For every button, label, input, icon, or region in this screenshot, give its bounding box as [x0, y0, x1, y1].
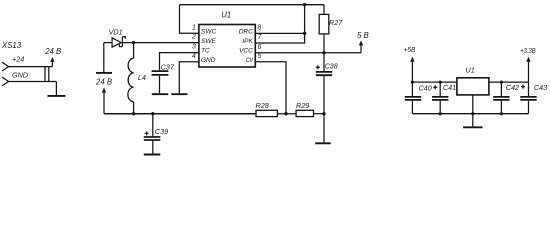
capacitor C39	[144, 137, 161, 140]
label R27	[329, 18, 343, 27]
wire R29 to C38 node	[314, 113, 325, 115]
pin 1 stub and riser	[180, 5, 199, 34]
wire ground drop	[323, 114, 325, 143]
resistor R28	[256, 110, 277, 116]
label U1	[221, 11, 231, 20]
+3.3В arrow	[528, 61, 530, 82]
node C39 tap	[151, 112, 154, 115]
op-amp U1 box	[199, 25, 255, 68]
pin number 4	[192, 53, 196, 60]
pin number 1	[192, 24, 196, 31]
pin 5 stub CII	[255, 62, 286, 114]
svg-text:C41: C41	[443, 83, 456, 92]
resistor R27	[319, 14, 329, 34]
24 V supply arrow (connector)	[51, 61, 53, 67]
capacitor C42 label	[506, 83, 519, 92]
capacitor C43	[520, 97, 536, 100]
ground (C37)	[152, 93, 168, 95]
svg-text:5 В: 5 В	[357, 31, 369, 40]
capacitor C38 label	[325, 61, 338, 70]
capacitor C42	[493, 97, 509, 100]
capacitor C40 label	[419, 83, 432, 92]
svg-text:VCC: VCC	[239, 48, 253, 55]
wire GND down	[55, 82, 57, 96]
label R28	[256, 101, 269, 110]
connector XS13 pin GND chevron	[2, 77, 9, 86]
pin number 2	[191, 34, 196, 41]
svg-text:24 В: 24 В	[95, 78, 112, 87]
pin 8 stub DRC	[255, 32, 304, 34]
pin label GND	[201, 57, 216, 64]
node top rail tap	[303, 3, 306, 6]
svg-text:IPK: IPK	[242, 38, 253, 45]
wire C43 bottom	[528, 101, 530, 114]
wire C40 bottom	[411, 101, 413, 114]
wire diode anode	[104, 42, 112, 44]
wire C39 bottom	[152, 141, 154, 154]
ground (connector)	[48, 95, 66, 97]
svg-text:1: 1	[192, 24, 196, 31]
svg-text:XS13: XS13	[1, 41, 22, 50]
pin label SWE	[201, 38, 216, 45]
node R27/C38 tap	[322, 51, 325, 54]
wire C43 top	[528, 82, 530, 96]
svg-text:L4: L4	[138, 73, 146, 82]
label +3.3В	[520, 46, 536, 55]
pin number 3	[192, 44, 196, 51]
svg-text:24 В: 24 В	[44, 47, 61, 56]
wire bottom rail left	[104, 113, 256, 115]
wire +24 pin	[9, 66, 53, 68]
svg-text:8: 8	[258, 24, 262, 31]
svg-text:+24: +24	[12, 54, 24, 63]
node pin8/riser	[303, 32, 306, 35]
wire pin 4 GND to ground	[179, 62, 199, 94]
node +5В corner	[411, 81, 414, 84]
node C41 top	[439, 81, 442, 84]
5 В output arrow	[360, 45, 362, 53]
wire C42 top	[500, 82, 502, 96]
node C42 top	[500, 81, 503, 84]
polarity + (C38)	[316, 65, 320, 69]
wire C41 top	[439, 82, 441, 96]
wire R27 bottom	[323, 34, 325, 53]
regulator U1 box	[457, 78, 489, 95]
capacitor C40	[405, 97, 421, 100]
capacitor C41	[432, 97, 448, 100]
svg-text:CII: CII	[246, 57, 253, 64]
svg-text:+5В: +5В	[404, 45, 416, 54]
pin label DRC	[239, 28, 253, 35]
wire C38 bottom	[323, 76, 325, 114]
svg-text:TC: TC	[201, 48, 210, 55]
node C42 bottom	[500, 112, 503, 115]
svg-text:C38: C38	[325, 61, 338, 70]
svg-text:U1: U1	[221, 11, 231, 20]
node C41 bottom	[439, 112, 442, 115]
wire C39 top	[152, 114, 154, 137]
wire C41 bottom	[439, 101, 441, 114]
svg-text:C43: C43	[534, 83, 547, 92]
label 24 В (rail)	[95, 78, 112, 87]
pin number 5	[258, 53, 262, 60]
pin label VCC	[239, 48, 253, 55]
wire top rail to R27	[323, 5, 325, 15]
svg-text:7: 7	[258, 34, 263, 41]
svg-text:C40: C40	[419, 83, 432, 92]
polarity + (C41)	[433, 85, 437, 89]
svg-text:+3.3В: +3.3В	[520, 46, 536, 55]
inductor L4	[128, 58, 134, 102]
label +5В	[404, 45, 416, 54]
svg-text:U1: U1	[466, 66, 475, 75]
+5В arrow	[411, 61, 413, 82]
ground (regulator)	[463, 126, 483, 128]
svg-text:R27: R27	[329, 18, 343, 27]
svg-text:SWE: SWE	[201, 38, 216, 45]
wire anode corner down	[103, 43, 105, 72]
ground (pin 4)	[171, 93, 187, 95]
resistor R29	[296, 110, 313, 116]
capacitor C37 label	[161, 62, 175, 71]
capacitor C41 label	[443, 83, 456, 92]
label R29	[296, 101, 309, 110]
pin label +24	[12, 54, 24, 63]
svg-text:5: 5	[258, 53, 262, 60]
pin number 8	[258, 24, 262, 31]
wire R28 to R29	[277, 113, 296, 115]
node C38/rail/ground	[322, 112, 325, 115]
svg-text:DRC: DRC	[239, 28, 253, 35]
diode VD1 (Schottky)	[112, 38, 121, 47]
pin number 7	[258, 34, 263, 41]
diode VD1 label	[109, 27, 123, 36]
connector XS13 label	[1, 41, 22, 50]
ground (C39)	[144, 154, 161, 156]
svg-text:C42: C42	[506, 83, 519, 92]
node diode/L4 junction	[132, 41, 135, 44]
24 В supply arrow (bottom rail)	[103, 91, 105, 113]
polarity + (C43)	[521, 85, 525, 89]
ground (output rail)	[315, 142, 331, 144]
pin number 6	[258, 44, 262, 51]
wire L4 top	[133, 43, 135, 59]
wire bottom rail (right block)	[412, 113, 528, 115]
svg-text:2: 2	[191, 34, 196, 41]
wire GND pin	[9, 81, 57, 83]
connector XS13 pin +24 chevron	[2, 62, 9, 71]
label 5 В	[357, 31, 369, 40]
svg-text:R28: R28	[256, 101, 269, 110]
svg-text:R29: R29	[296, 101, 309, 110]
wire L4 bottom	[133, 102, 135, 114]
svg-text:VD1: VD1	[109, 27, 123, 36]
capacitor C38	[316, 72, 332, 75]
wire U1 ground pin	[472, 95, 474, 127]
wire top rail left (right block)	[412, 81, 457, 83]
label 24 В (connector)	[44, 47, 61, 56]
pin 6 wire VCC	[255, 52, 361, 54]
wire C42 bottom	[500, 101, 502, 114]
pin 7 stub IPK	[255, 5, 304, 43]
wire C37 to ground	[159, 76, 161, 94]
ground (diode anode)	[96, 72, 112, 74]
svg-text:C39: C39	[155, 127, 168, 136]
pin label GND	[12, 70, 28, 79]
wire C38 top	[323, 53, 325, 71]
svg-text:SWC: SWC	[201, 28, 216, 35]
svg-text:4: 4	[192, 53, 196, 60]
capacitor C37	[152, 71, 169, 75]
pin label IPK	[242, 38, 253, 45]
svg-text:GND: GND	[12, 70, 28, 79]
node U1 gnd/rail	[471, 112, 474, 115]
wire pin 3 TC to C37	[160, 53, 199, 71]
node pin5/divider	[284, 112, 287, 115]
svg-text:GND: GND	[201, 57, 216, 64]
label U1 (regulator)	[466, 66, 475, 75]
node L4/rail	[132, 112, 135, 115]
svg-text:6: 6	[258, 44, 262, 51]
wire cathode to pin 2 SWE	[122, 42, 198, 44]
capacitor C43 label	[534, 83, 547, 92]
wire top rail	[180, 4, 325, 6]
wire C40 top	[411, 82, 413, 96]
capacitor C39 label	[155, 127, 168, 136]
pin label TC	[201, 48, 210, 55]
pin label SWC	[201, 28, 216, 35]
inductor label L4	[138, 73, 146, 82]
wire top rail right (right block)	[489, 81, 529, 83]
svg-text:3: 3	[192, 44, 196, 51]
svg-text:C37: C37	[161, 62, 175, 71]
connector crossing bars	[45, 67, 49, 82]
polarity + (C39)	[145, 131, 149, 135]
pin label CII	[246, 57, 253, 64]
